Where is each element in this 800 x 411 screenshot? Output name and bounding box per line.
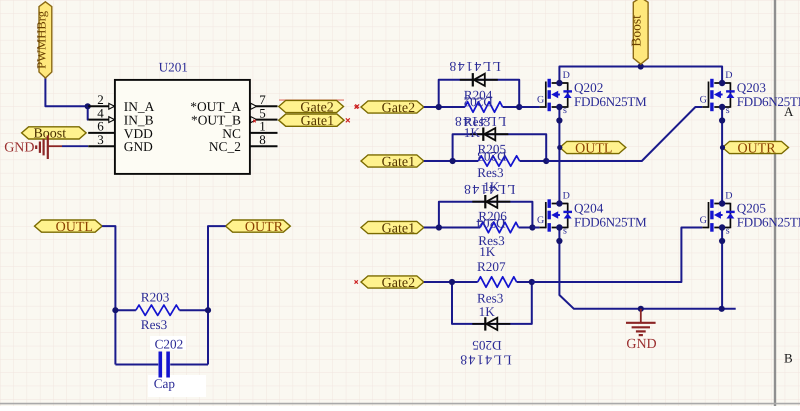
svg-text:FDD6N25TM: FDD6N25TM	[574, 94, 647, 109]
svg-text:LL4148: LL4148	[448, 59, 501, 74]
svg-text:s: s	[563, 225, 567, 236]
svg-text:FDD6N25TM: FDD6N25TM	[737, 215, 800, 230]
svg-text:OUTR: OUTR	[245, 220, 284, 235]
svg-text:R203: R203	[141, 290, 170, 305]
svg-text:LL4148: LL4148	[459, 353, 512, 368]
svg-text:1K: 1K	[464, 125, 481, 140]
svg-text:Res3: Res3	[477, 165, 504, 180]
svg-text:Gate2: Gate2	[382, 101, 415, 116]
svg-text:G: G	[700, 215, 707, 226]
svg-text:s: s	[726, 225, 730, 236]
svg-text:GND: GND	[626, 337, 656, 352]
svg-text:Boost: Boost	[629, 15, 644, 47]
svg-text:B: B	[784, 350, 793, 365]
svg-text:OUTL: OUTL	[575, 141, 612, 156]
svg-text:Q203: Q203	[737, 80, 767, 95]
svg-text:1K: 1K	[479, 304, 496, 319]
svg-text:G: G	[700, 95, 707, 106]
svg-text:OUTL: OUTL	[56, 220, 93, 235]
svg-text:Gate1: Gate1	[382, 155, 415, 170]
svg-text:D: D	[725, 70, 732, 81]
svg-text:Gate2: Gate2	[382, 276, 415, 291]
svg-text:D: D	[563, 70, 570, 81]
svg-text:Q204: Q204	[574, 200, 604, 215]
svg-text:FDD6N25TM: FDD6N25TM	[737, 94, 800, 109]
svg-text:s: s	[726, 105, 730, 116]
svg-text:D: D	[563, 191, 570, 202]
svg-text:Res3: Res3	[141, 317, 168, 332]
svg-text:GND: GND	[124, 139, 153, 154]
svg-text:Boost: Boost	[33, 127, 66, 142]
svg-text:PWMHBrg: PWMHBrg	[34, 10, 48, 69]
svg-text:Gate1: Gate1	[382, 221, 415, 236]
svg-text:D205: D205	[472, 338, 502, 353]
svg-text:NC_2: NC_2	[209, 139, 241, 154]
svg-text:D202: D202	[464, 95, 493, 110]
svg-text:GND: GND	[4, 140, 34, 155]
svg-text:s: s	[563, 105, 567, 116]
svg-text:U201: U201	[159, 60, 188, 75]
svg-text:1K: 1K	[479, 244, 496, 259]
svg-text:Q202: Q202	[574, 80, 603, 95]
svg-text:C202: C202	[155, 336, 184, 351]
svg-text:G: G	[537, 95, 544, 106]
svg-text:Gate1: Gate1	[301, 114, 334, 129]
svg-text:Q205: Q205	[737, 200, 767, 215]
svg-text:D203: D203	[477, 149, 507, 164]
svg-text:Cap: Cap	[154, 376, 176, 391]
svg-text:3: 3	[97, 132, 104, 147]
svg-text:8: 8	[259, 132, 266, 147]
svg-text:R207: R207	[477, 259, 506, 274]
svg-text:FDD6N25TM: FDD6N25TM	[574, 215, 647, 230]
svg-text:D: D	[725, 191, 732, 202]
svg-text:G: G	[537, 215, 544, 226]
svg-text:D204: D204	[476, 216, 506, 231]
svg-text:LL4148: LL4148	[463, 182, 516, 197]
svg-text:OUTR: OUTR	[737, 141, 776, 156]
